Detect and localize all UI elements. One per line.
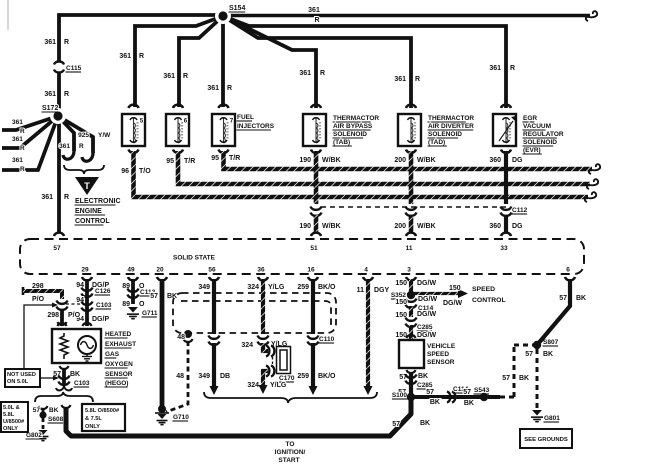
svg-text:361: 361: [489, 65, 501, 72]
svg-text:361: 361: [119, 53, 131, 60]
svg-text:57: 57: [525, 351, 533, 358]
svg-text:R: R: [510, 65, 515, 72]
svg-text:G801: G801: [544, 415, 560, 422]
svg-text:57: 57: [502, 375, 510, 382]
svg-text:200: 200: [394, 223, 406, 230]
svg-text:OXYGEN: OXYGEN: [105, 361, 133, 368]
svg-text:C110: C110: [319, 336, 335, 343]
svg-text:298: 298: [47, 312, 59, 319]
svg-text:S608: S608: [48, 416, 64, 423]
svg-text:R: R: [314, 17, 319, 24]
svg-text:ONLY: ONLY: [85, 424, 100, 430]
svg-text:95: 95: [211, 155, 219, 162]
svg-text:259: 259: [297, 373, 309, 380]
svg-text:16: 16: [307, 267, 315, 274]
svg-text:57: 57: [150, 293, 158, 300]
svg-text:(HEGO): (HEGO): [105, 380, 128, 387]
svg-text:57: 57: [463, 389, 471, 396]
svg-text:BK/O: BK/O: [318, 284, 336, 291]
svg-text:DG/W: DG/W: [417, 311, 436, 318]
svg-text:BK: BK: [167, 293, 177, 300]
svg-text:DGY: DGY: [374, 287, 390, 294]
svg-text:R: R: [64, 91, 69, 98]
svg-text:DG/W: DG/W: [417, 280, 436, 287]
svg-text:S807: S807: [543, 339, 559, 346]
svg-text:BK: BK: [49, 407, 59, 414]
svg-text:R: R: [20, 166, 25, 173]
svg-text:AIR BYPASS: AIR BYPASS: [333, 123, 373, 130]
svg-text:CONTROL: CONTROL: [472, 297, 506, 304]
svg-text:HEATED: HEATED: [105, 331, 132, 338]
svg-text:361: 361: [12, 157, 23, 164]
svg-text:DB: DB: [220, 373, 230, 380]
svg-text:SOLID STATE: SOLID STATE: [173, 255, 216, 262]
svg-text:51: 51: [310, 245, 318, 252]
svg-text:T/O: T/O: [139, 168, 151, 175]
svg-text:SOLENOID: SOLENOID: [523, 139, 557, 146]
svg-text:VEHICLE: VEHICLE: [427, 343, 456, 350]
svg-text:BK: BK: [430, 399, 440, 406]
svg-text:R: R: [20, 145, 25, 152]
svg-text:BK: BK: [70, 371, 80, 378]
svg-text:ELECTRONIC: ELECTRONIC: [75, 198, 121, 205]
svg-text:20: 20: [156, 267, 164, 274]
svg-text:57: 57: [53, 245, 61, 252]
svg-text:C126: C126: [95, 288, 111, 295]
svg-text:48: 48: [177, 334, 185, 341]
svg-text:CONTROL: CONTROL: [75, 218, 110, 225]
svg-text:C170: C170: [279, 375, 295, 382]
svg-text:361: 361: [59, 143, 70, 150]
svg-text:95: 95: [166, 158, 174, 165]
svg-text:SENSOR: SENSOR: [427, 359, 455, 366]
svg-text:36: 36: [257, 267, 265, 274]
svg-text:NOT USED: NOT USED: [7, 372, 36, 378]
svg-text:T/R: T/R: [229, 155, 240, 162]
svg-text:324: 324: [247, 382, 259, 389]
svg-text:DG: DG: [512, 223, 523, 230]
svg-text:190: 190: [299, 157, 311, 164]
svg-text:G710: G710: [173, 414, 189, 421]
svg-text:S100: S100: [392, 392, 408, 399]
svg-text:324: 324: [247, 284, 259, 291]
svg-text:S352: S352: [391, 292, 407, 299]
svg-text:48: 48: [176, 373, 184, 380]
svg-text:VACUUM: VACUUM: [523, 123, 551, 130]
svg-text:361: 361: [299, 70, 311, 77]
svg-text:361: 361: [12, 136, 23, 143]
svg-text:U/8500#: U/8500#: [3, 419, 25, 425]
svg-text:T: T: [84, 181, 90, 191]
svg-text:360: 360: [489, 223, 501, 230]
svg-text:11: 11: [406, 245, 413, 252]
svg-text:6: 6: [184, 118, 188, 125]
svg-text:TO: TO: [286, 441, 295, 448]
svg-text:INJECTORS: INJECTORS: [237, 123, 275, 130]
svg-text:R: R: [415, 76, 420, 83]
svg-text:4: 4: [364, 267, 368, 274]
svg-text:361: 361: [394, 76, 406, 83]
svg-text:AIR DIVERTER: AIR DIVERTER: [428, 123, 474, 130]
svg-text:SEE GROUNDS: SEE GROUNDS: [524, 437, 568, 443]
svg-text:(EVR): (EVR): [523, 147, 541, 154]
svg-text:(TAB): (TAB): [333, 139, 350, 146]
svg-text:150: 150: [395, 280, 407, 287]
svg-text:BK: BK: [420, 420, 430, 427]
svg-text:P/O: P/O: [68, 312, 81, 319]
svg-text:BK: BK: [464, 400, 474, 407]
svg-text:Y/LG: Y/LG: [270, 382, 287, 389]
svg-text:W/BK: W/BK: [322, 157, 341, 164]
svg-text:IGNITION/: IGNITION/: [275, 449, 306, 456]
svg-text:89: 89: [122, 301, 130, 308]
svg-text:3: 3: [407, 267, 411, 274]
svg-text:DG: DG: [512, 157, 523, 164]
svg-text:29: 29: [81, 267, 89, 274]
svg-text:SENSOR: SENSOR: [105, 371, 133, 378]
svg-text:REGULATOR: REGULATOR: [523, 131, 564, 138]
svg-text:BK: BK: [519, 375, 529, 382]
svg-text:O: O: [139, 301, 145, 308]
svg-text:SOLENOID: SOLENOID: [333, 131, 367, 138]
svg-text:G802: G802: [26, 432, 42, 439]
svg-text:349: 349: [198, 284, 210, 291]
svg-text:ON 5.0L: ON 5.0L: [7, 379, 29, 385]
svg-text:EGR: EGR: [523, 115, 537, 122]
svg-text:R: R: [139, 53, 144, 60]
svg-text:324: 324: [241, 342, 253, 349]
svg-text:G711: G711: [142, 310, 158, 317]
svg-text:GAS: GAS: [105, 351, 120, 358]
svg-text:200: 200: [394, 157, 406, 164]
svg-text:R: R: [183, 73, 188, 80]
svg-text:DG/W: DG/W: [417, 332, 436, 339]
svg-text:START: START: [278, 457, 299, 464]
svg-text:BK/O: BK/O: [318, 373, 336, 380]
svg-text:11: 11: [357, 287, 365, 294]
svg-text:R: R: [20, 128, 25, 135]
svg-text:5.0L &: 5.0L &: [3, 405, 20, 411]
svg-text:361: 361: [41, 194, 53, 201]
svg-text:6: 6: [566, 267, 570, 274]
svg-text:150: 150: [395, 332, 407, 339]
svg-text:SPEED: SPEED: [427, 351, 449, 358]
svg-text:190: 190: [299, 223, 311, 230]
svg-text:R: R: [64, 194, 69, 201]
svg-text:49: 49: [127, 267, 135, 274]
svg-text:C112: C112: [512, 207, 528, 214]
svg-text:361: 361: [308, 7, 320, 14]
svg-text:5.8L: 5.8L: [3, 412, 15, 418]
svg-text:C103: C103: [96, 302, 112, 309]
svg-text:349: 349: [198, 373, 210, 380]
svg-text:P/O: P/O: [32, 296, 45, 303]
svg-text:S172: S172: [42, 105, 58, 112]
svg-text:96: 96: [121, 168, 129, 175]
svg-text:361: 361: [44, 39, 56, 46]
svg-text:(TAD): (TAD): [428, 139, 445, 146]
svg-text:S543: S543: [474, 387, 490, 394]
svg-text:R: R: [320, 70, 325, 77]
svg-text:298: 298: [32, 283, 44, 290]
svg-text:BK: BK: [576, 295, 586, 302]
svg-text:& 7.5L: & 7.5L: [85, 416, 102, 422]
svg-text:57: 57: [426, 389, 434, 396]
svg-text:361: 361: [163, 73, 175, 80]
svg-text:THERMACTOR: THERMACTOR: [428, 115, 474, 122]
svg-text:925: 925: [78, 132, 89, 139]
svg-text:ENGINE: ENGINE: [75, 208, 102, 215]
svg-text:ONLY: ONLY: [3, 426, 18, 432]
svg-text:361: 361: [44, 91, 56, 98]
svg-text:259: 259: [297, 284, 309, 291]
svg-text:57: 57: [559, 295, 567, 302]
svg-text:33: 33: [500, 245, 508, 252]
svg-text:C115: C115: [66, 65, 82, 72]
svg-text:57: 57: [33, 407, 41, 414]
svg-text:SPEED: SPEED: [472, 286, 495, 293]
svg-text:R: R: [79, 143, 84, 150]
svg-text:150: 150: [449, 285, 461, 292]
svg-text:DG/W: DG/W: [443, 300, 462, 307]
svg-text:W/BK: W/BK: [417, 157, 436, 164]
svg-text:W/BK: W/BK: [322, 223, 341, 230]
svg-text:T/R: T/R: [184, 158, 195, 165]
svg-text:57: 57: [392, 421, 400, 428]
svg-text:C103: C103: [74, 380, 90, 387]
svg-text:R: R: [64, 39, 69, 46]
svg-text:BK: BK: [543, 351, 553, 358]
svg-text:THERMACTOR: THERMACTOR: [333, 115, 379, 122]
svg-text:R: R: [227, 85, 232, 92]
svg-text:SOLENOID: SOLENOID: [428, 131, 462, 138]
svg-text:C285: C285: [417, 382, 433, 389]
svg-text:5.8L O/8500#: 5.8L O/8500#: [85, 408, 120, 414]
svg-text:FUEL: FUEL: [237, 114, 254, 121]
svg-text:BK: BK: [418, 373, 428, 380]
svg-text:C285: C285: [417, 324, 433, 331]
svg-text:150: 150: [395, 299, 407, 306]
svg-text:Y/W: Y/W: [98, 132, 111, 139]
svg-text:7: 7: [230, 118, 234, 125]
svg-text:Y/LG: Y/LG: [268, 284, 285, 291]
svg-text:DG/P: DG/P: [92, 316, 109, 323]
svg-text:360: 360: [489, 157, 501, 164]
svg-text:361: 361: [207, 85, 219, 92]
svg-text:S154: S154: [229, 5, 245, 12]
svg-text:EXHAUST: EXHAUST: [105, 341, 136, 348]
svg-text:361: 361: [12, 119, 23, 126]
svg-text:DG/W: DG/W: [418, 296, 437, 303]
svg-text:56: 56: [208, 267, 216, 274]
svg-text:5: 5: [140, 118, 144, 125]
svg-text:W/BK: W/BK: [417, 223, 436, 230]
